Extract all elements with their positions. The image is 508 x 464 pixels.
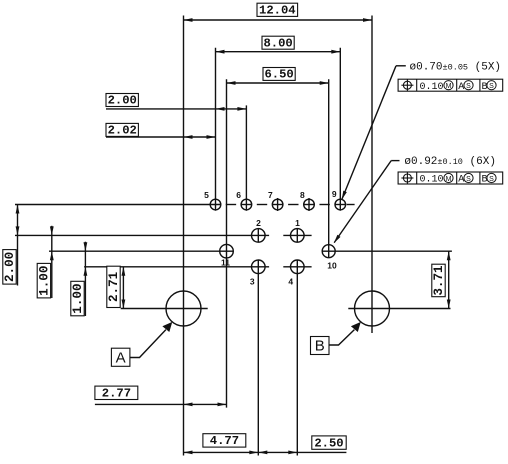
dimension 3.71 line	[447, 251, 451, 308]
hole 4 column extension line	[296, 260, 298, 456]
row 11-10 extension line	[49, 250, 234, 252]
svg-text:2.00: 2.00	[108, 94, 137, 108]
row 5-9 centerline dash right of hole 9	[347, 204, 355, 206]
hole 9 column extension line	[339, 48, 341, 211]
svg-text:ø0.92±0.10 (6X): ø0.92±0.10 (6X)	[404, 156, 496, 168]
dimension 2.77 boxed label	[95, 386, 138, 400]
svg-text:3: 3	[250, 276, 255, 286]
dimension 3.71 boxed label	[432, 264, 446, 297]
hole 10 number label	[327, 260, 337, 270]
svg-text:1: 1	[295, 218, 300, 228]
dimension 2.71 boxed label	[107, 266, 121, 307]
callout hole diameter 0.92 leader	[334, 161, 400, 244]
hole 2	[251, 229, 265, 243]
svg-text:2.50: 2.50	[314, 436, 343, 450]
hole 6 cross horizontal	[241, 204, 252, 206]
svg-text:B: B	[482, 175, 488, 186]
callout 0.70 feature control frame	[398, 79, 503, 93]
dimension 12.04 boxed label	[257, 3, 298, 17]
hole 9 number label	[332, 189, 337, 199]
datum A leader	[130, 330, 166, 358]
callout hole diameter 0.70 leader	[342, 66, 406, 200]
callout hole diameter 0.92 text	[404, 156, 496, 168]
hole 7 cross horizontal	[272, 204, 283, 206]
svg-text:M: M	[446, 83, 452, 90]
svg-text:12.04: 12.04	[259, 3, 296, 17]
dimension 1.00 upper boxed label	[37, 263, 51, 298]
dimension 2.77 line	[95, 403, 227, 407]
svg-text:S: S	[489, 176, 494, 183]
hole 3 number label	[250, 276, 255, 286]
dimension 2.00 left line	[16, 205, 20, 286]
svg-text:0.10: 0.10	[420, 175, 444, 186]
hole 11 number label	[221, 258, 230, 268]
svg-text:4.77: 4.77	[210, 434, 239, 448]
datum B leader	[329, 330, 354, 345]
dimension 2.71 line	[122, 267, 126, 309]
callout hole diameter 0.70 text	[410, 62, 502, 74]
svg-text:3.71: 3.71	[432, 265, 446, 296]
svg-text:9: 9	[332, 189, 337, 199]
svg-text:A: A	[116, 349, 126, 366]
datum A circle	[166, 291, 201, 326]
dimension 4.77 line	[184, 451, 259, 455]
hole 1 number label	[295, 218, 300, 228]
hole 5 column extension line	[215, 48, 217, 211]
row 2-1 extension line	[15, 234, 269, 236]
datum A horizontal centerline	[121, 308, 208, 310]
row 5-9 centerline solid left segment	[15, 204, 221, 206]
hole 4 number label	[288, 276, 293, 286]
dimension 2.02 line	[106, 135, 216, 139]
hole 9	[335, 199, 346, 210]
callout 0.92 feature control frame	[398, 172, 503, 186]
svg-text:M: M	[446, 176, 452, 183]
row 3-4 extension line	[84, 266, 269, 268]
hole 7 number label	[268, 190, 273, 200]
svg-text:11: 11	[221, 258, 230, 268]
datum B horizontal centerline	[348, 308, 450, 310]
svg-text:ø0.70±0.05 (5X): ø0.70±0.05 (5X)	[410, 62, 502, 74]
hole 5	[210, 199, 221, 210]
hole 8	[304, 198, 315, 211]
svg-text:1.00: 1.00	[71, 283, 85, 313]
datum B filled triangle	[351, 322, 361, 332]
hole 1 cross horizontal	[283, 234, 311, 236]
svg-text:A: A	[458, 82, 464, 93]
hole 4 cross horizontal	[283, 266, 311, 268]
hole 3	[251, 260, 265, 274]
dimension 8.00 line	[216, 50, 341, 54]
svg-text:2.02: 2.02	[108, 124, 137, 138]
svg-text:S: S	[466, 83, 471, 90]
svg-text:A: A	[458, 175, 464, 186]
row 5-9 centerline dashes	[226, 204, 330, 206]
svg-text:S: S	[489, 83, 494, 90]
dimension 2.00 left boxed label	[3, 250, 17, 285]
hole 7	[272, 198, 283, 211]
hole 11	[220, 244, 234, 258]
svg-text:S: S	[466, 176, 471, 183]
svg-text:8: 8	[300, 190, 305, 200]
dimension 2.00 top line	[106, 107, 246, 111]
hole 6 number label	[236, 190, 241, 200]
dimension 8.00 boxed label	[262, 36, 294, 50]
hole 10 column extension line	[328, 79, 330, 258]
svg-text:5: 5	[204, 190, 209, 200]
hole 10 horizontal line to 3.71 dim	[322, 250, 452, 252]
svg-text:6: 6	[236, 190, 241, 200]
hole 8 cross horizontal	[303, 204, 314, 206]
svg-text:2.77: 2.77	[102, 387, 131, 401]
dimension 2.00 top boxed label	[106, 94, 138, 108]
svg-text:10: 10	[327, 260, 337, 270]
svg-text:6.50: 6.50	[264, 68, 293, 82]
hole 2 number label	[256, 218, 261, 228]
svg-text:8.00: 8.00	[263, 36, 292, 50]
dimension 1.00 lower boxed label	[71, 281, 85, 316]
dimension 6.50 boxed label	[263, 68, 295, 82]
svg-text:2.71: 2.71	[107, 271, 121, 302]
svg-text:4: 4	[288, 276, 293, 286]
dimension 1.00 upper line	[50, 226, 54, 298]
hole 6 column extension line	[245, 105, 247, 210]
hole 1	[291, 229, 305, 243]
hole 3 column extension line	[257, 260, 259, 456]
dimension 12.04 line	[184, 18, 373, 22]
datum A boxed label	[111, 348, 129, 366]
body right edge extension line	[371, 16, 373, 334]
dimension 1.00 lower line	[84, 242, 88, 316]
dimension 6.50 line	[227, 81, 329, 85]
hole 8 number label	[300, 190, 305, 200]
datum B circle	[355, 291, 390, 326]
svg-text:7: 7	[268, 190, 273, 200]
hole 4	[291, 260, 305, 274]
hole 11 column extension line	[226, 79, 228, 407]
svg-text:B: B	[482, 82, 488, 93]
hole 10	[322, 245, 335, 258]
dimension 2.50 line	[258, 451, 346, 455]
dimension 2.50 boxed label	[312, 436, 346, 450]
hole 6	[241, 199, 252, 210]
body left edge extension line	[183, 16, 185, 456]
dimension 4.77 boxed label	[203, 434, 246, 448]
datum B boxed label	[311, 337, 330, 355]
svg-text:1.00: 1.00	[38, 266, 52, 296]
svg-text:2: 2	[256, 218, 261, 228]
svg-text:0.10: 0.10	[420, 82, 444, 93]
svg-text:2.00: 2.00	[3, 252, 17, 282]
dimension 2.02 boxed label	[106, 123, 138, 137]
svg-text:B: B	[315, 338, 325, 355]
hole 9 cross horizontal	[335, 204, 346, 206]
datum A filled triangle	[162, 322, 172, 332]
hole 5 number label	[204, 190, 209, 200]
